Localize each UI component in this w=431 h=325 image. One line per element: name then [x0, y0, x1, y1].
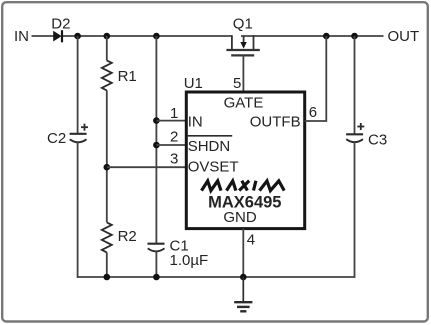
svg-text:OUTFB: OUTFB — [250, 113, 301, 130]
wire R1 bottom to R2 top — [106, 90, 108, 222]
wire C2 branch lower — [77, 142, 79, 278]
svg-text:GND: GND — [223, 209, 257, 226]
wire bottom ground rail — [77, 276, 356, 278]
node junction OUT rail / C3 — [351, 33, 358, 40]
svg-text:2: 2 — [170, 128, 178, 145]
wire C2 branch upper — [77, 36, 79, 134]
wire stub to pin 1 — [156, 120, 186, 122]
node junction top rail / C1 line — [153, 33, 160, 40]
svg-text:OUT: OUT — [388, 28, 420, 45]
wire IN/SHDN/C1 vertical line — [155, 36, 157, 243]
node junction pin 2 — [153, 142, 160, 149]
node junction top rail / C2 — [74, 33, 81, 40]
node junction OVSET divider tap — [104, 164, 111, 171]
wire C1 bottom lead — [155, 251, 157, 278]
capacitor C2 — [70, 124, 88, 143]
svg-text:5: 5 — [233, 75, 241, 92]
svg-text:6: 6 — [309, 104, 317, 121]
svg-text:C3: C3 — [368, 131, 387, 148]
svg-text:IN: IN — [14, 28, 29, 45]
svg-text:SHDN: SHDN — [188, 138, 231, 155]
svg-text:C2: C2 — [47, 130, 66, 147]
resistor R2 — [102, 222, 112, 252]
wire OUTFB branch — [305, 36, 327, 121]
wire top rail from D2 cathode to Q1 drain — [63, 35, 232, 37]
svg-text:D2: D2 — [51, 16, 70, 33]
wire OVSET to pin 3 — [107, 166, 186, 168]
svg-text:GATE: GATE — [224, 95, 264, 112]
svg-text:1: 1 — [170, 105, 178, 122]
wire R2 bottom lead — [106, 252, 108, 277]
svg-text:R2: R2 — [118, 228, 137, 245]
node junction OUT rail / OUTFB branch — [323, 33, 330, 40]
svg-text:3: 3 — [170, 151, 178, 168]
wire top rail from Q1 source to OUT — [241, 35, 384, 37]
wire stub to pin 2 — [156, 144, 186, 146]
svg-text:OVSET: OVSET — [188, 159, 239, 176]
op-amp U1 MAX6495 box — [186, 92, 304, 229]
diode D2 — [53, 30, 62, 42]
node junction top rail / R1 — [104, 33, 111, 40]
node junction pin 1 — [153, 117, 160, 124]
node junction bottom rail / R2 — [104, 274, 111, 281]
node junction bottom rail / C1 — [153, 274, 160, 281]
node junction bottom rail / pin 4 — [240, 274, 247, 281]
wire pin 4 to ground rail — [242, 229, 244, 278]
ground — [234, 277, 252, 311]
svg-text:R1: R1 — [118, 68, 137, 85]
wire R1 top lead — [106, 36, 108, 60]
MAXIM logo — [202, 181, 285, 191]
resistor R1 — [102, 60, 112, 90]
wire C3 branch lower — [354, 141, 356, 277]
capacitor C1 — [148, 244, 165, 252]
wire Q1 gate to pin 5 — [242, 55, 244, 92]
svg-text:4: 4 — [247, 231, 255, 248]
svg-text:1.0µF: 1.0µF — [170, 252, 209, 269]
capacitor C3 — [346, 123, 364, 142]
wire C3 branch upper — [354, 36, 356, 134]
transistor Q1 — [226, 35, 259, 55]
svg-text:U1: U1 — [184, 75, 203, 92]
svg-text:Q1: Q1 — [233, 16, 253, 33]
wire IN lead to D2 anode — [32, 35, 54, 37]
svg-text:IN: IN — [188, 113, 203, 130]
